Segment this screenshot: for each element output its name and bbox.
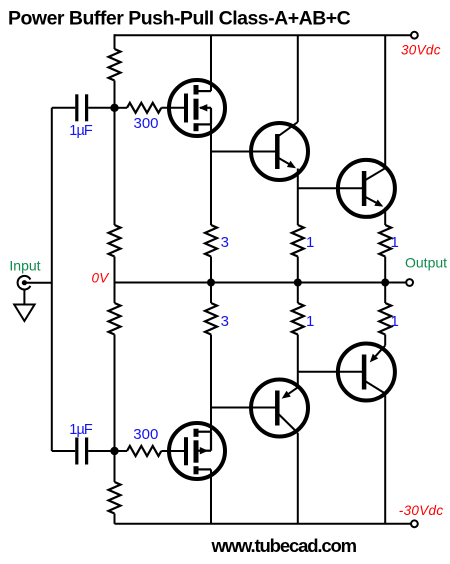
resistor R3 1	[292, 225, 304, 257]
terminal -30V	[411, 520, 418, 527]
resistor 300 top	[127, 103, 161, 113]
wire R300 to gate M1	[161, 107, 184, 109]
capacitor C2 1uF	[77, 438, 87, 465]
wire connector to ground	[23, 290, 25, 305]
svg-text:0V: 0V	[92, 271, 111, 286]
svg-text:3: 3	[221, 234, 229, 251]
resistor RD (bottom left, unlabeled)	[109, 482, 121, 514]
svg-text:Power Buffer Push-Pull Class-A: Power Buffer Push-Pull Class-A+AB+C	[8, 8, 351, 30]
wire C1 to node	[88, 107, 114, 109]
wire base Q1	[211, 151, 277, 153]
wire col4 Q4 collector to bottom rail	[384, 394, 386, 524]
wire col3 top rail to Q1 collector	[297, 35, 299, 122]
wire col3 Q3 collector to bottom rail	[297, 433, 299, 524]
resistor RA (top left, unlabeled)	[109, 49, 121, 80]
svg-text:-30Vdc: -30Vdc	[399, 503, 444, 518]
input connector J1	[18, 276, 31, 290]
resistor R2 3	[205, 303, 217, 335]
transistor Q4 PNP	[338, 344, 395, 401]
node dot top-left	[110, 104, 118, 112]
svg-text:Output: Output	[405, 255, 447, 271]
wire col2 M2 drain to bottom rail	[210, 469, 212, 523]
mosfet M1 (top)	[169, 80, 225, 136]
wire left column upper	[114, 81, 116, 226]
resistor 300 bottom	[127, 446, 161, 456]
terminal Output	[406, 279, 413, 286]
wire node to R300 bottom	[115, 450, 128, 452]
node dot bottom-left	[110, 447, 118, 455]
svg-text:1: 1	[306, 234, 314, 251]
transistor Q3 PNP	[251, 380, 308, 437]
wire col2 down to M2 source	[210, 335, 212, 432]
resistor R4 1	[292, 303, 304, 335]
svg-text:3: 3	[221, 313, 229, 330]
wire col3 Q1 emitter down	[297, 169, 299, 226]
wire col2 to 0V	[210, 257, 212, 304]
node dot col2 0V	[207, 279, 215, 287]
resistor R6 1	[379, 303, 391, 335]
svg-text:30Vdc: 30Vdc	[401, 43, 441, 58]
wire base Q2	[298, 187, 364, 189]
wire col4 Q2 emitter down	[384, 208, 386, 226]
svg-text:300: 300	[133, 426, 158, 443]
capacitor C1 1uF	[77, 94, 87, 121]
terminal +30V	[411, 32, 418, 39]
wire col4 down to Q4 emitter	[384, 335, 386, 346]
svg-text:1µF: 1µF	[69, 123, 93, 139]
wire col2 source M1 down	[210, 124, 212, 225]
resistor RC (left, below 0V)	[109, 303, 121, 335]
wire input col to C1	[52, 107, 75, 109]
node dot col3 0V	[294, 279, 302, 287]
resistor R5 1	[379, 225, 391, 257]
resistor R1 3	[205, 225, 217, 257]
wire 0V mid rail	[115, 282, 407, 284]
svg-text:1: 1	[391, 313, 399, 330]
wire base Q3	[211, 407, 277, 409]
wire input column	[51, 108, 53, 451]
svg-text:1: 1	[306, 313, 314, 330]
transistor Q2 NPN	[338, 160, 395, 217]
wire output	[385, 282, 406, 284]
node dot output	[381, 279, 389, 287]
mosfet M2 (bottom)	[169, 423, 225, 479]
wire C2 from input column	[52, 450, 75, 452]
resistor RB (left, above 0V)	[109, 225, 121, 257]
wire col3 down to Q3 emitter	[297, 335, 299, 388]
svg-text:www.tubecad.com: www.tubecad.com	[211, 535, 357, 556]
wire left column lower	[114, 335, 116, 483]
ground	[14, 305, 34, 322]
svg-text:1: 1	[391, 234, 399, 251]
wire col3 to 0V	[297, 257, 299, 304]
wire left column top	[114, 34, 116, 49]
wire col2 drain M1 to top rail	[210, 35, 212, 91]
wire left column mid	[114, 257, 116, 304]
wire base Q4	[298, 371, 364, 373]
wire input to column	[27, 282, 52, 284]
transistor Q1 NPN	[251, 122, 308, 180]
wire left column bottom	[114, 514, 116, 524]
wire C2 to node	[88, 450, 114, 452]
wire bottom rail	[115, 523, 411, 525]
svg-text:300: 300	[134, 115, 159, 132]
svg-text:1µF: 1µF	[69, 422, 93, 438]
wire node to R300 top	[115, 107, 128, 109]
wire R300 to gate M2	[161, 450, 184, 452]
wire col4 to 0V	[384, 257, 386, 304]
wire col4 top rail to Q2 collector	[384, 35, 386, 168]
wire top rail	[115, 34, 411, 36]
svg-text:Input: Input	[9, 257, 40, 273]
